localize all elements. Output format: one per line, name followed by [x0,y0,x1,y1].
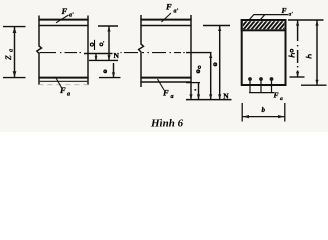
rebar dot 3 [270,77,274,81]
e arrow down (member 2) [218,94,221,99]
dimension b line [242,116,285,118]
leader bracket to Fa' (section) [249,15,288,21]
dimension e arrow down (member 1) [112,72,115,77]
arrow down x198.5 [197,94,200,99]
member 1 left edge with break [37,16,42,86]
top tick for h0 and h [288,19,324,21]
member 2 left edge with break [139,15,144,87]
svg-text:a': a' [69,13,74,19]
dimension e line (member 2) [219,26,221,99]
svg-text:b: b [262,106,266,114]
svg-text:F: F [274,91,279,100]
label Za rotated [4,49,15,60]
svg-text:a: a [171,94,174,100]
member 1 bottom reinforcement Fa line 2 [38,80,88,82]
member 1 top reinforcement Fa' line 2 [38,25,88,27]
dimension e0 line (member 2) [210,53,212,99]
label e tiny (member 2) [214,63,217,66]
label Fa (member 2) [162,88,174,101]
dimension Za arrow down [13,71,17,77]
svg-text:F: F [61,6,68,16]
force N line (member 1) [84,53,113,55]
svg-text:Hình 6: Hình 6 [150,118,184,130]
leader to Fa' (member 2) [162,13,172,22]
svg-text:F: F [165,2,172,12]
dimension b arrow left [243,115,249,118]
svg-text:a': a' [174,9,179,15]
rebar dot 1 [248,77,252,81]
svg-text:a': a' [289,12,294,18]
dimension from Fa level tick (member 2) [186,82,200,84]
label Fa' (section) [282,6,294,18]
member 1 centerline dash-dot [40,52,81,54]
dimension b right tick [284,103,286,122]
member 2 right edge extended as dimension to N line [190,15,192,99]
dimension line x198.5 (member 2) [198,83,200,99]
h arrow down [315,80,318,85]
dimension h line [316,20,318,84]
leader to Fa' (member 1) [56,15,69,23]
dimension Za line [14,27,16,77]
e0 arrow down (member 2) [209,94,212,99]
axis tick (member 2) [186,52,212,54]
force N line (member 2) [186,99,232,101]
svg-text:a: a [9,49,15,52]
svg-text:F: F [59,85,66,95]
tick at Fa level (member 1 right) [99,77,121,79]
member 1 top reinforcement Fa' line 1 [38,19,88,21]
label N (member 2) [223,92,229,101]
dimension e0 arrow down (member 1) [95,56,98,60]
h arrow up [315,21,318,26]
dimension b left tick [241,103,243,122]
label Fa (section) [274,91,284,103]
label Fa (member 1) [59,85,70,98]
e0 arrow up (member 2) [209,53,212,58]
member 1 bottom edge faint [38,84,88,86]
svg-text:Z: Z [4,55,13,60]
svg-text:a: a [67,92,70,98]
svg-text:N: N [223,92,229,101]
compression zone hatched band border [242,20,286,30]
h0 arrow down [296,72,299,77]
member 2 top reinforcement line 2 [140,25,191,27]
dash dot near x195 [195,89,197,91]
label e tiny (member 1) [100,41,104,45]
e arrow up (member 2) [218,26,221,31]
member 2 centerline dash-dot [142,52,185,54]
dimension e' arrow up [107,27,110,32]
member 2 bottom reinforcement line 2 [140,81,191,83]
svg-text:a: a [280,96,283,102]
dimension e' arrow down [107,55,110,60]
dimension h0 line dash-dot [297,20,299,76]
member 1 bottom reinforcement Fa line 1 [38,77,88,79]
member 1 right edge [87,16,89,86]
h bottom tick [301,84,327,86]
dimension Za bottom tick [3,77,26,79]
dimension b arrow right [278,115,284,118]
dimension Za arrow up [13,27,17,33]
caption Hinh 6 [150,118,184,130]
dimension e top tick (member 2, at Fa' level) [203,25,230,27]
label h0 rotated [288,49,294,57]
dimension Za top tick [3,26,26,28]
bracket under rebar dots [249,81,274,93]
label Fa' (member 2) [165,2,179,15]
h0 bottom tick [290,76,305,78]
label o tiny (member 1) [104,70,107,73]
label Fa' (member 1) [61,6,75,19]
arrow down on member2 right edge line [189,94,192,99]
svg-text:F: F [282,6,287,15]
member 2 bottom reinforcement line 1 [140,77,191,79]
leader to Fa (member 2) [158,79,165,90]
hatch lines [237,17,299,33]
label e0 tiny (member 2) [197,66,201,73]
rebar dot 2 [259,77,263,81]
label b [262,106,266,114]
dimension e line lower (member 1) [113,63,115,77]
dimension e' top tick (member 1, at Fa' level) [98,25,118,27]
dimension e' line [108,26,110,60]
h0 arrow up [296,21,299,26]
centerline dash-dot between members [121,52,139,54]
label N (member 1) [114,51,120,60]
label h rotated [306,55,312,59]
leader to Fa (member 1) [56,78,62,89]
dimension e0 line (member 1) [95,54,97,60]
tick at N application level (member 1) [89,59,118,61]
svg-text:N: N [114,51,120,60]
cross-section outline [242,20,286,85]
member 2 top reinforcement line 1 [140,19,191,21]
label e' tiny (member 1) [90,40,94,50]
